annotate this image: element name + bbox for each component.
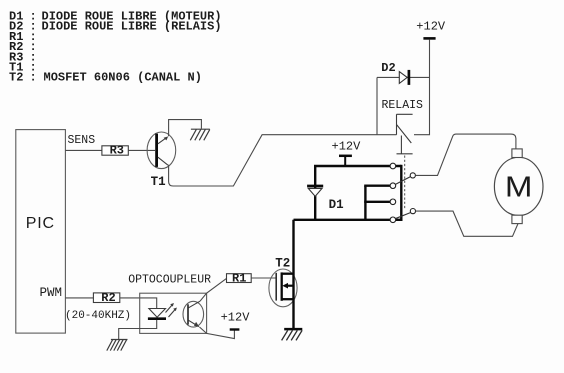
wire T1 collector to relay coil node xyxy=(169,135,397,186)
wire R3 to T1 base xyxy=(128,149,155,151)
svg-text:(20-40KHZ): (20-40KHZ) xyxy=(65,310,131,322)
wire B to contact C2 xyxy=(364,184,390,186)
switch arm P2-C4 xyxy=(396,213,411,219)
svg-text:MOSFET 60N06 (CANAL N): MOSFET 60N06 (CANAL N) xyxy=(44,71,202,85)
wire P1 to motor top xyxy=(415,134,516,175)
relay pole P1 xyxy=(410,173,415,178)
LED of optocoupler xyxy=(149,309,166,318)
wire opto emitter to +12V xyxy=(200,327,235,339)
wire +12V stem down to coil right side xyxy=(414,40,430,135)
svg-text:SENS: SENS xyxy=(68,134,96,147)
svg-text:PIC: PIC xyxy=(26,215,55,232)
svg-text:R3: R3 xyxy=(110,144,124,158)
svg-text:+12V: +12V xyxy=(332,140,362,154)
svg-text:T1: T1 xyxy=(151,175,166,189)
legend text block xyxy=(9,10,222,85)
svg-text:T2: T2 xyxy=(9,71,23,85)
motor M1 xyxy=(494,149,543,224)
relay coil symbol xyxy=(397,114,413,154)
contact C3 xyxy=(390,199,396,205)
svg-text:OPTOCOUPLEUR: OPTOCOUPLEUR xyxy=(128,273,211,286)
wire R2 to optocoupler LED anode xyxy=(120,298,157,309)
contact frame bar xyxy=(400,165,402,221)
resistor R1 xyxy=(227,274,252,283)
wire middle vertical xyxy=(364,186,366,220)
wire opto collector to R1 xyxy=(200,278,227,301)
relay mechanical dashed link xyxy=(404,156,406,210)
svg-text:D2: D2 xyxy=(381,61,395,75)
diode D1 xyxy=(307,186,323,196)
contact C4 xyxy=(390,217,396,223)
diode D2 xyxy=(377,70,430,85)
optocoupler box U2 xyxy=(140,293,207,333)
svg-text:DIODE ROUE LIBRE (RELAIS): DIODE ROUE LIBRE (RELAIS) xyxy=(42,20,222,34)
svg-text:PWM: PWM xyxy=(40,286,63,300)
wire D2 anode down to coil node xyxy=(376,77,378,134)
phototransistor of optocoupler xyxy=(183,301,204,327)
resistor R3 xyxy=(102,146,128,155)
transistor T2 (MOSFET) xyxy=(269,269,297,307)
svg-text:D1: D1 xyxy=(329,198,344,212)
resistor R2 xyxy=(93,293,119,303)
contact C1 xyxy=(390,163,396,169)
+12V supply (relay) xyxy=(416,20,446,39)
svg-text:T2: T2 xyxy=(275,256,290,270)
ground (opto LED) xyxy=(107,340,128,351)
transistor T1 xyxy=(147,132,176,169)
chassis ground (T1) xyxy=(190,129,210,140)
wire PIC SENS to R3 xyxy=(65,149,102,151)
wire T2 drain bus down to ground xyxy=(292,220,294,328)
wire PIC PWM to R2 xyxy=(65,297,93,299)
svg-text::: : xyxy=(30,71,37,85)
svg-text:R1: R1 xyxy=(232,271,246,285)
LED emission arrows xyxy=(166,305,176,318)
contact C2 xyxy=(390,183,396,189)
relay pole P2 xyxy=(410,209,415,214)
wire R1 to T2 gate xyxy=(251,277,275,279)
PIC box U1 xyxy=(16,130,66,334)
svg-text:R2: R2 xyxy=(101,291,115,305)
wire D : bottom rail T2 drain to contact C4 xyxy=(294,219,402,221)
wire left vertical through D1 xyxy=(314,166,316,220)
wire T1 emitter up to chassis ground xyxy=(169,120,202,137)
wire LED cathode to ground xyxy=(119,320,157,339)
svg-text:+12V: +12V xyxy=(221,311,251,325)
svg-text:M: M xyxy=(505,171,533,203)
+12V supply (opto) xyxy=(230,328,240,330)
ground (T2 source) xyxy=(282,329,303,340)
switch arm P1-C2 xyxy=(395,177,410,185)
wire A : +12V top rail to contact C1 xyxy=(314,165,401,167)
svg-text:RELAIS: RELAIS xyxy=(382,99,424,112)
wire C to contact C3 xyxy=(364,201,390,203)
+12V supply (D1 bridge) xyxy=(332,140,362,166)
svg-text:+12V: +12V xyxy=(416,20,446,34)
wire P2 to motor bottom xyxy=(416,211,519,236)
